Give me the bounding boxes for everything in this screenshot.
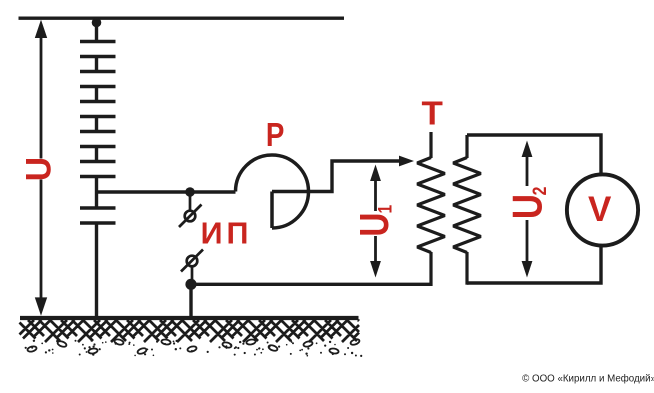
capacitor C4 of divider string [80, 132, 116, 147]
capacitor C5 of divider string [80, 162, 116, 177]
measurement arrow U (left) [35, 20, 47, 316]
ground line [20, 316, 359, 320]
wire: bottom return ИП to transformer [188, 283, 431, 286]
device P (3/4 circle with sector radii) [236, 155, 309, 228]
svg-text:ИП: ИП [201, 217, 253, 251]
label U1 [357, 211, 393, 236]
svg-text:2: 2 [528, 187, 550, 196]
capacitor C1 of divider string [80, 42, 116, 57]
arrowhead into transformer [399, 156, 414, 167]
label U [26, 159, 53, 180]
node dot at bottom wire [185, 279, 196, 290]
top bus wire [19, 17, 345, 20]
label U2 [512, 186, 546, 220]
svg-text:Р: Р [266, 117, 284, 154]
ground soil dots [25, 340, 363, 357]
spark gap ИП lower ball [181, 250, 203, 283]
wire: divider stub from bus [95, 20, 98, 40]
label P [266, 117, 284, 154]
node dot at tap [185, 187, 195, 197]
arrow U2 [522, 141, 533, 278]
wire C2-C3 [95, 87, 98, 102]
wire C3-C4 [95, 117, 98, 132]
ground hatch [20, 320, 360, 342]
svg-text:1: 1 [374, 204, 396, 213]
capacitor C2 of divider string [80, 72, 116, 87]
wire: ИП down to ground [189, 284, 192, 318]
ground soil ellipses [27, 338, 360, 355]
svg-text:U: U [505, 194, 552, 219]
label T [422, 95, 444, 132]
svg-text:U: U [351, 213, 397, 237]
wire: divider tap to P [97, 190, 236, 193]
svg-text:V: V [588, 190, 612, 229]
wire: string bottom to ground [95, 223, 98, 318]
arrow U1 [370, 165, 381, 278]
svg-text:© ООО «Кирилл и Мефодий»: © ООО «Кирилл и Мефодий» [522, 374, 654, 385]
transformer secondary winding [453, 135, 481, 285]
wire: secondary loop to voltmeter [467, 135, 601, 283]
voltmeter V circle [567, 174, 638, 245]
wire: P output and jog up [272, 161, 403, 192]
node dot at bus [92, 18, 102, 28]
wire C4-C5 [95, 147, 98, 162]
wire C5-C6 through tap node [95, 177, 98, 209]
svg-text:U: U [20, 157, 59, 181]
transformer primary winding [417, 132, 445, 286]
spark gap ИП upper ball [179, 194, 202, 227]
capacitor C3 of divider string [80, 102, 116, 117]
wire C1-C2 [95, 57, 98, 72]
capacitor C6 (low-voltage arm) [80, 208, 116, 223]
svg-text:Т: Т [422, 95, 444, 132]
